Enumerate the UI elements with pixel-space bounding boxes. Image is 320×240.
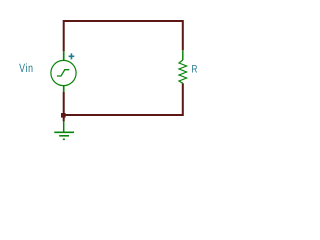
node junction at ground bbox=[61, 113, 66, 118]
voltage source V1 top lead bbox=[63, 51, 65, 60]
ground lead bbox=[63, 121, 65, 132]
label R bbox=[192, 65, 197, 72]
voltage source V1 circle bbox=[51, 60, 76, 85]
resistor R top lead bbox=[182, 51, 184, 60]
wire ground stub bbox=[63, 117, 65, 121]
voltage source step waveform bbox=[57, 70, 69, 76]
voltage source V1 bottom lead bbox=[63, 86, 65, 92]
wire top: from source top to resistor top bbox=[64, 21, 183, 51]
label Vin bbox=[19, 64, 25, 72]
ground bar 3 bbox=[63, 138, 65, 140]
wire bottom: from source bottom via junction to resistor bottom bbox=[64, 83, 183, 115]
resistor R zigzag bbox=[179, 60, 187, 83]
ground bar 1 bbox=[54, 131, 74, 133]
ground bar 2 bbox=[59, 135, 69, 137]
polarity plus sign bbox=[69, 53, 75, 59]
